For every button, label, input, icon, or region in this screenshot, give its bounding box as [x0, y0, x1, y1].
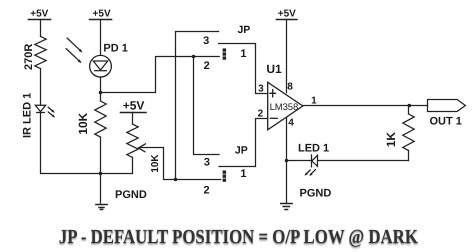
svg-text:10K: 10K: [150, 154, 161, 173]
svg-text:OUT 1: OUT 1: [430, 116, 462, 128]
svg-text:1: 1: [240, 48, 246, 60]
svg-text:JP: JP: [235, 145, 248, 157]
svg-text:4: 4: [288, 118, 294, 129]
svg-text:2: 2: [203, 185, 209, 197]
svg-text:2: 2: [204, 60, 210, 72]
svg-text:2: 2: [258, 108, 264, 119]
svg-text:1: 1: [311, 95, 317, 106]
svg-text:+5V: +5V: [30, 9, 48, 20]
svg-text:IR LED 1: IR LED 1: [21, 93, 33, 138]
svg-text:U1: U1: [266, 62, 282, 76]
svg-text:LM358: LM358: [270, 102, 299, 113]
svg-text:JP: JP: [237, 24, 250, 36]
svg-text:270R: 270R: [23, 44, 35, 70]
svg-text:PD 1: PD 1: [103, 43, 127, 55]
svg-text:PGND: PGND: [300, 188, 332, 200]
svg-text:LED 1: LED 1: [298, 143, 329, 155]
svg-text:3: 3: [203, 35, 209, 47]
svg-text:8: 8: [287, 81, 293, 92]
svg-text:JP - DEFAULT POSITION = O/P LO: JP - DEFAULT POSITION = O/P LOW @ DARK: [59, 226, 418, 248]
svg-text:3: 3: [204, 156, 210, 168]
svg-text:PGND: PGND: [115, 189, 147, 201]
svg-text:+5V: +5V: [278, 9, 296, 20]
svg-text:10K: 10K: [76, 112, 90, 134]
svg-text:+5V: +5V: [123, 99, 145, 113]
svg-text:1K: 1K: [384, 132, 398, 148]
svg-text:3: 3: [258, 83, 264, 94]
svg-text:+5V: +5V: [93, 9, 111, 20]
svg-text:1: 1: [240, 168, 246, 180]
